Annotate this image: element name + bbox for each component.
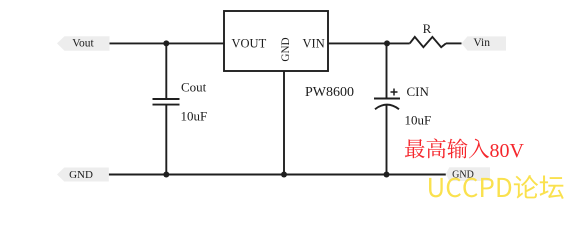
wire U1 VIN pin to node VIN bbox=[328, 42, 410, 44]
annotation text 最高输入80V (max input 80V) bbox=[405, 138, 525, 162]
svg-text:VOUT: VOUT bbox=[232, 36, 267, 50]
wire resistor R to Vin tag bbox=[446, 42, 462, 44]
net tag Vin bbox=[462, 36, 507, 50]
svg-text:Vout: Vout bbox=[72, 37, 94, 49]
capacitor CIN 10uF polarized bbox=[374, 43, 431, 174]
watermark UCCPD论坛 bbox=[429, 175, 564, 199]
net tag GND left bbox=[57, 168, 109, 182]
junction dot U1 GND/ground bus bbox=[281, 172, 287, 178]
svg-text:10uF: 10uF bbox=[181, 109, 208, 124]
svg-text:CIN: CIN bbox=[407, 84, 430, 99]
wire Vout tag to U1 VOUT pin bbox=[110, 42, 225, 44]
svg-text:10uF: 10uF bbox=[405, 113, 432, 128]
junction dot CIN/ground bus bbox=[384, 172, 390, 178]
op-amp/regulator IC U1 PW8600 body bbox=[224, 11, 328, 71]
wire U1 GND pin to ground bus bbox=[283, 71, 285, 175]
net tag GND right bbox=[446, 167, 490, 181]
net tag Vout bbox=[57, 36, 110, 51]
junction dot Cout/ground bus bbox=[163, 172, 169, 178]
svg-text:R: R bbox=[423, 21, 432, 36]
junction dot node Vout/Cout bbox=[163, 40, 169, 46]
svg-text:Vin: Vin bbox=[473, 37, 490, 49]
ground bus wire bbox=[109, 174, 446, 176]
svg-text:PW8600: PW8600 bbox=[305, 85, 354, 100]
svg-text:Cout: Cout bbox=[181, 80, 207, 95]
svg-text:GND: GND bbox=[280, 37, 292, 61]
junction dot node VIN/CIN bbox=[384, 40, 390, 46]
svg-text:80V: 80V bbox=[490, 140, 525, 162]
svg-text:VIN: VIN bbox=[303, 36, 325, 50]
svg-text:GND: GND bbox=[69, 169, 93, 181]
resistor R bbox=[410, 21, 446, 47]
capacitor Cout 10uF bbox=[153, 43, 208, 174]
